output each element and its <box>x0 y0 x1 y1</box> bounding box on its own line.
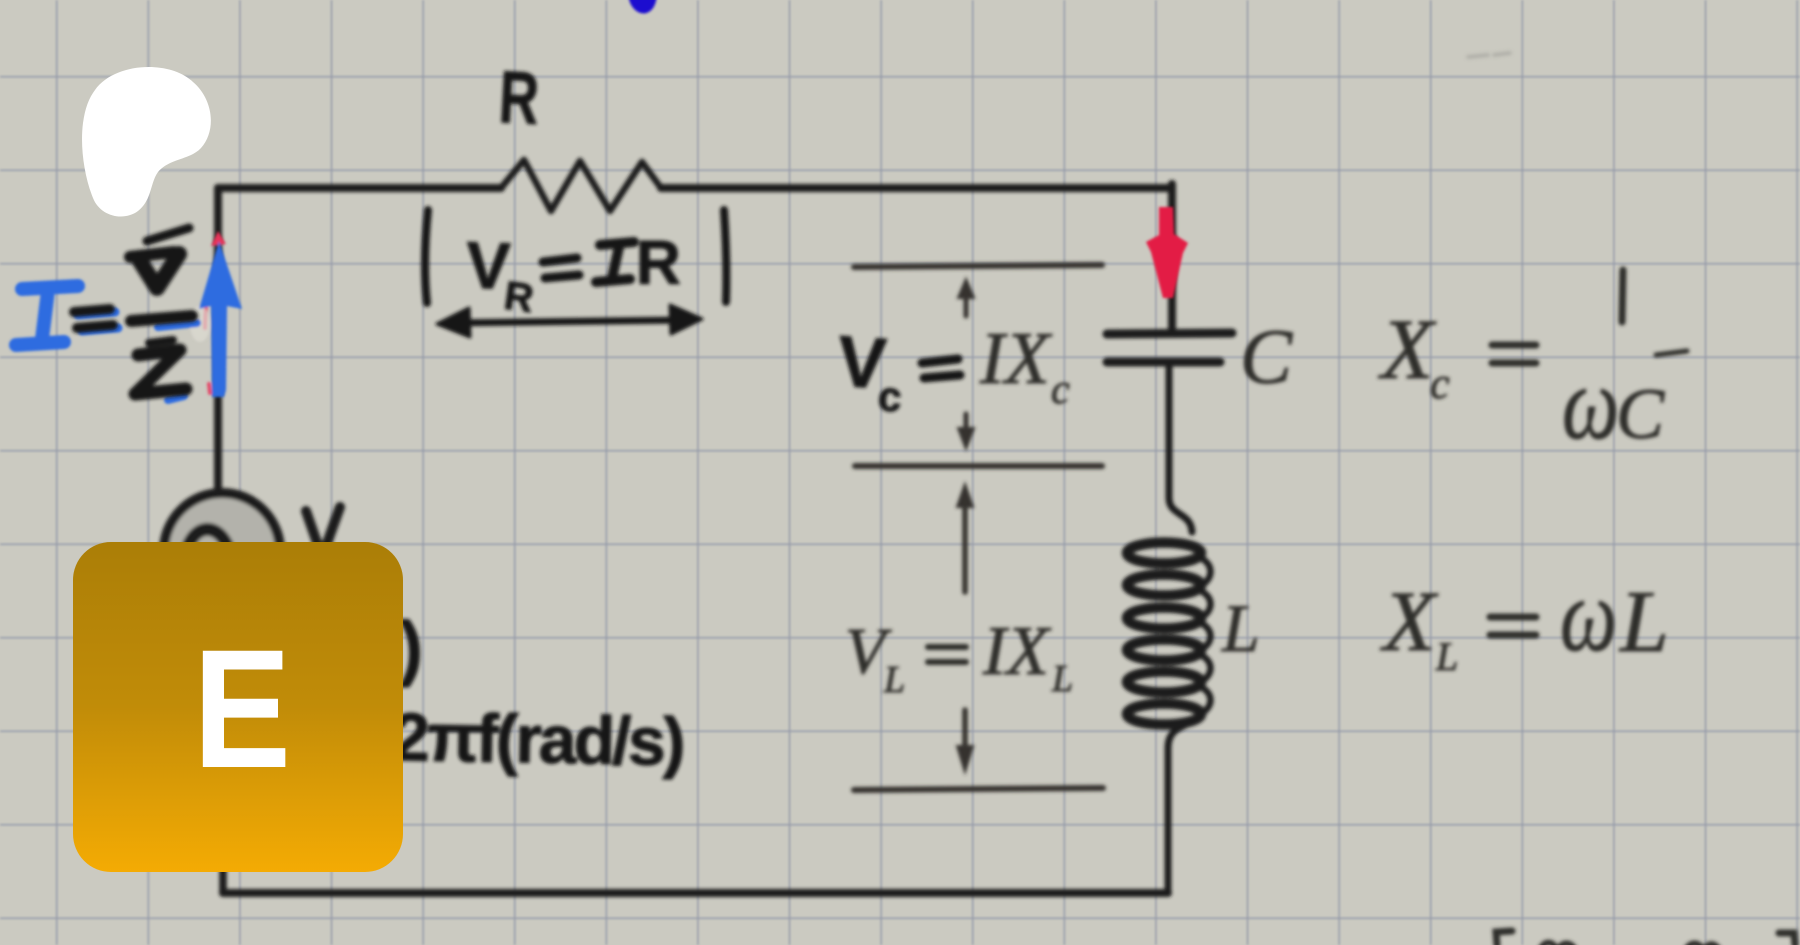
svg-text:L: L <box>1435 634 1458 679</box>
wire left vertical <box>214 188 222 490</box>
= sign of VR=IR <box>543 258 579 278</box>
accent over V <box>147 228 189 241</box>
red fringe left of blue shaft <box>205 298 210 393</box>
svg-text:IX: IX <box>979 318 1053 400</box>
blue I of I=V/Z <box>16 286 78 345</box>
clipped letter tops 1 <box>1541 943 1574 945</box>
svg-text:c: c <box>1430 359 1450 408</box>
source sine mark <box>187 529 227 549</box>
svg-text:ω: ω <box>1562 347 1619 462</box>
gold E logo overlay <box>73 542 403 872</box>
blue squiggle top edge <box>632 0 653 10</box>
svg-text:R: R <box>497 55 541 140</box>
blue current arrow <box>199 241 242 397</box>
wire capacitor to inductor <box>1169 366 1192 532</box>
inductor right connecting arcs <box>1197 556 1211 716</box>
bracket line top of VC span <box>854 265 1102 267</box>
clipped letter tops 2 <box>1687 944 1718 945</box>
capacitor C bottom plate <box>1107 358 1220 367</box>
bar left of VR=IR <box>425 210 428 303</box>
svg-text:C: C <box>1240 313 1293 400</box>
dimension arrow under resistor <box>450 320 688 323</box>
inductor L coil loop 2 <box>1127 575 1201 596</box>
blue under fraction bar <box>158 323 197 327</box>
XC numerator 1 <box>1622 270 1623 322</box>
VL equals <box>928 647 966 662</box>
inductor L coil loop 4 <box>1127 640 1201 661</box>
= sign of VC= <box>922 359 960 378</box>
fraction bar <box>131 316 192 321</box>
svg-text:X: X <box>1380 573 1439 669</box>
svg-text:X: X <box>1378 301 1437 397</box>
svg-text:R: R <box>636 229 681 298</box>
label I of IR <box>596 242 634 282</box>
source circle V <box>164 493 280 609</box>
svg-text:ω: ω <box>1560 559 1617 674</box>
inductor exit curve to bottom wire <box>1168 718 1196 893</box>
white blob overlay (Patreon mark) <box>82 67 211 216</box>
wire right vertical upper <box>1168 184 1176 330</box>
svg-text:IX: IX <box>982 613 1052 690</box>
svg-text:C: C <box>1616 374 1665 454</box>
V top bar <box>130 252 174 257</box>
blue tail under Z <box>168 396 184 400</box>
capacitor C top plate <box>1107 333 1232 334</box>
svg-text:L: L <box>1221 590 1260 666</box>
inductor L coil loop 3 <box>1127 608 1201 629</box>
long up arrow below mid bracket <box>962 502 968 592</box>
Z of fraction <box>135 350 186 394</box>
small up arrow below top bracket <box>964 294 969 316</box>
svg-text:L: L <box>883 659 905 701</box>
resistor R zigzag <box>501 160 661 211</box>
svg-text:c: c <box>1051 367 1070 413</box>
wire top right segment <box>661 184 1172 192</box>
V of fraction <box>140 254 179 288</box>
wire top left segment <box>218 184 501 192</box>
small down arrow above mid bracket <box>964 414 969 432</box>
accent over Z <box>149 340 173 343</box>
black = of I <box>74 309 113 328</box>
white smudge by blue arrow <box>190 306 210 342</box>
svg-text:2πf(rad/s): 2πf(rad/s) <box>392 699 684 780</box>
red ghost tip above blue arrow <box>211 231 226 246</box>
bar right of VR=IR <box>724 210 726 302</box>
svg-text:E: E <box>193 614 291 803</box>
inductor L coil loop 6 <box>1127 704 1201 725</box>
bracket line bottom of VL span <box>854 788 1103 790</box>
inductor L coil loop 1 <box>1127 543 1201 564</box>
wire bottom left vertical (behind logo) <box>219 610 227 893</box>
red arrow (current into capacitor) <box>1146 207 1188 298</box>
XC fraction dash <box>1656 351 1687 355</box>
svg-text:L: L <box>1051 658 1073 700</box>
XL equals <box>1490 617 1536 635</box>
XC equals <box>1492 345 1536 363</box>
down arrow above bottom bracket <box>962 710 968 750</box>
clipped bracket ] bottom right <box>1779 933 1795 945</box>
faint dash top right <box>1468 53 1510 57</box>
inductor L coil loop 5 <box>1127 672 1201 693</box>
svg-text:c: c <box>877 372 904 421</box>
bracket line mid (between VC and VL spans) <box>855 463 1102 469</box>
bottom wire <box>223 889 1168 897</box>
svg-text:L: L <box>1618 574 1669 671</box>
label V of source <box>306 507 340 557</box>
blue parts of = <box>78 312 118 331</box>
clipped bracket [ bottom right <box>1496 931 1512 945</box>
